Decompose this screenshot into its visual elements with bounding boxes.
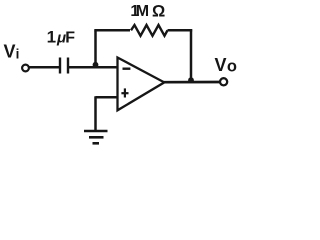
wire: input terminal to capacitor xyxy=(29,66,60,69)
op-amp inverting pin mark (-) xyxy=(123,67,131,69)
wire: feedback top left segment xyxy=(94,29,130,32)
resistor 1M ohm xyxy=(131,25,168,36)
svg-text:V: V xyxy=(215,55,227,75)
wire: capacitor to op-amp inverting input xyxy=(68,66,118,69)
capacitor 1uF xyxy=(60,58,68,74)
svg-text:Ω: Ω xyxy=(152,2,165,20)
input terminal (Vi) xyxy=(22,65,29,72)
op-amp non-inverting pin mark (+) xyxy=(121,88,128,97)
wire: op-amp output to output terminal xyxy=(163,81,220,84)
value label 1M ohm xyxy=(130,2,165,20)
ground xyxy=(84,131,108,143)
label Vo (output net) xyxy=(215,55,237,76)
wire: non-inverting input to ground drop xyxy=(96,96,118,99)
svg-text:M: M xyxy=(136,3,149,20)
wire: feedback top right segment xyxy=(168,29,193,32)
output terminal (Vo) xyxy=(220,78,227,85)
node: junction at output xyxy=(188,77,194,83)
wire: feedback left vertical xyxy=(94,30,97,65)
wire: vertical to ground xyxy=(94,96,97,131)
wire: feedback right vertical xyxy=(190,29,193,81)
op-amp U1 xyxy=(118,58,165,111)
svg-text:o: o xyxy=(227,58,237,76)
label Vi (input net) xyxy=(4,42,20,62)
node: junction at inverting input xyxy=(93,62,99,68)
svg-text:i: i xyxy=(16,47,20,62)
svg-text:F: F xyxy=(65,30,75,47)
svg-text:V: V xyxy=(4,42,16,62)
value label 1uF xyxy=(47,28,76,47)
svg-text:1: 1 xyxy=(47,28,56,47)
